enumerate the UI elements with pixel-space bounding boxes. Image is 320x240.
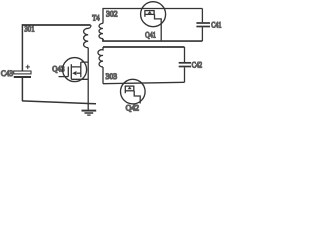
capacitor C43 bottom plate (solid bar) [14,76,31,78]
Q43 gate lead [59,76,69,78]
ground symbol bar 2 [85,112,94,114]
wire: net 303 top (to C42) [103,46,185,48]
svg-text:301: 301 [24,24,34,34]
svg-text:T4: T4 [92,14,99,23]
Q41 drain stub left [144,11,146,15]
Q41 source L-lead down to net 302 bottom [155,14,162,41]
Q41 left short stub [144,14,146,16]
Q41 channel bar [144,10,154,12]
svg-text:Q43: Q43 [52,64,64,73]
wire: box 301 top edge [22,24,91,26]
capacitor C41 plate 1 [196,22,210,24]
wire: box 301 left edge upper (to C43) [21,24,23,71]
Q42 left short stub [124,91,126,93]
wire: primary bottom / Q43 drain-source rail / down to ground [87,48,89,111]
capacitor C42 plate 2 [179,66,191,68]
svg-text:C42: C42 [192,60,202,69]
wire: box 301 bottom edge (slightly sloped, overshoots junction) [22,101,96,104]
transistor Q43 circle [63,58,87,82]
Q42 right stub [133,86,135,91]
svg-text:Q41: Q41 [145,29,156,39]
svg-text:Q42: Q42 [126,102,140,112]
wire: secondary 2 bottom lead down to net 303 bottom [102,67,104,84]
transformer T4 primary winding (4 bumps, bulge left) [84,25,91,48]
ground symbol bar 3 [87,114,90,116]
Q42 arrow (points up) [128,87,132,90]
transistor Q41 circle [141,2,166,27]
wire: secondary top lead, net 302 top [103,9,202,24]
ground symbol bar 1 [82,110,97,112]
wire: C42 bottom lead [184,67,186,82]
Q43 drain stub and exit [71,62,88,77]
wire: secondary 1 bottom lead to net 302 bottom [103,39,202,41]
Q42 rail [125,90,135,92]
Q42 drain stub left [124,86,126,91]
Q41 rail [144,13,154,15]
capacitor C41 plate 2 [196,26,210,28]
Q43 gate bar [67,67,69,77]
wire: C42 top lead [184,47,186,62]
transformer T4 secondary winding 1 (3 bumps, bulge left) [99,23,103,38]
wire: box 301 left edge lower (C43 to bottom corner) [21,78,23,101]
Q41 arrow (points up) [148,11,152,14]
svg-text:302: 302 [106,8,118,18]
wire: C41 top lead [201,9,203,23]
Q43 source line [71,78,88,80]
Q41 right stub [153,11,155,15]
Q42 channel bar [125,85,135,87]
Q43 mid stub [77,72,81,74]
wire: net 303 bottom (through Q42 to C42) [103,82,185,83]
capacitor C42 plate 1 [179,62,191,64]
svg-text:C41: C41 [211,21,221,30]
svg-text:C43: C43 [1,68,13,78]
Q42 source L-lead (exits circle bottom) [134,91,140,104]
svg-text:303: 303 [106,71,118,81]
Q43 arrow (points left) [72,71,76,75]
capacitor C43 top plate (hollow rectangle) [14,71,31,74]
transistor Q42 circle [121,79,146,104]
transformer T4 secondary winding 2 (3 bumps, bulge left) [98,47,103,67]
Q43 channel bar [70,64,72,79]
wire: C41 bottom lead [201,27,203,41]
C43 polarity plus sign [26,65,30,69]
